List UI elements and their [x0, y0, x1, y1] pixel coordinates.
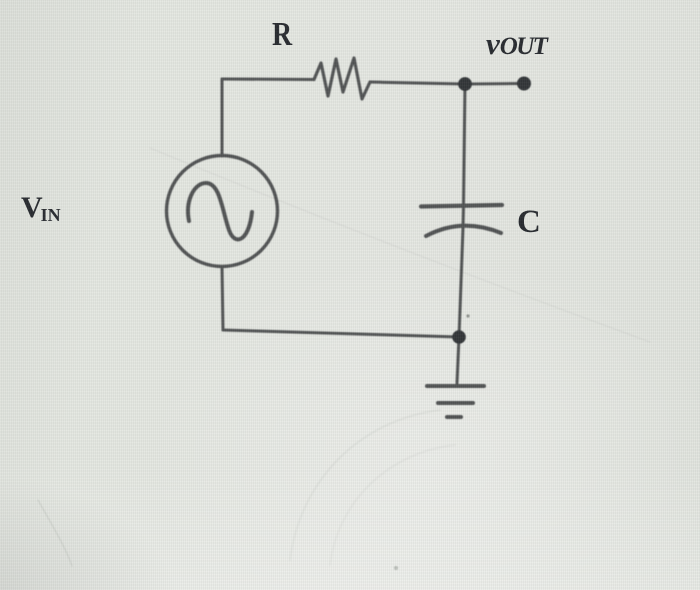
ground bar 1 — [427, 384, 484, 388]
node vout junction dot — [458, 77, 472, 91]
wire vout stub — [465, 82, 524, 86]
faint scratch diagonal — [150, 148, 650, 342]
resistor R1 zigzag — [314, 58, 370, 99]
source sine symbol — [188, 183, 252, 239]
faint moire ring 1 — [290, 410, 440, 560]
label C — [517, 204, 541, 241]
wire right vertical lower — [459, 228, 463, 337]
faint moire ring 2 — [330, 445, 455, 565]
capacitor C top plate — [421, 205, 502, 207]
wire bottom horizontal — [223, 330, 459, 337]
node ground junction dot — [452, 330, 466, 344]
wire right vertical upper — [464, 84, 466, 204]
speck above ground node — [466, 314, 469, 317]
node vout terminal dot — [517, 77, 531, 91]
faint scratch bottom-left — [38, 500, 72, 566]
ground bar 2 — [438, 401, 473, 405]
wire top-left horizontal — [222, 78, 314, 82]
ground bar 3 — [447, 415, 461, 419]
wire between capacitor plates — [462, 206, 466, 228]
label VIN — [21, 191, 61, 226]
label R — [272, 16, 292, 54]
label vOUT — [486, 26, 546, 62]
source V1 circle — [167, 156, 278, 267]
wire left vertical lower — [222, 267, 223, 330]
wire resistor to vout node — [370, 82, 465, 84]
wire left vertical upper — [221, 79, 224, 156]
speck bottom — [394, 566, 398, 570]
capacitor C bottom curved plate — [426, 226, 501, 236]
wire ground stem — [457, 337, 459, 383]
